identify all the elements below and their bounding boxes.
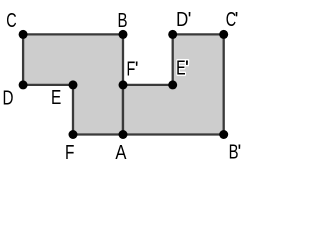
point F bbox=[69, 130, 78, 139]
polygon ABCDEF (left hexagon, gray fill) bbox=[23, 34, 123, 134]
svg-text:C: C bbox=[6, 8, 16, 31]
point E' bbox=[168, 80, 177, 89]
point E bbox=[69, 80, 78, 89]
svg-text:': ' bbox=[185, 58, 189, 80]
point A bbox=[119, 130, 128, 139]
svg-text:F: F bbox=[65, 141, 74, 163]
svg-text:': ' bbox=[235, 9, 239, 31]
svg-text:A: A bbox=[115, 140, 127, 163]
svg-text:E: E bbox=[51, 86, 61, 108]
label E' (white halo over gray fill) bbox=[176, 56, 189, 80]
svg-text:D: D bbox=[3, 86, 14, 109]
point B' bbox=[219, 130, 228, 139]
svg-text:': ' bbox=[135, 59, 139, 81]
svg-text:B: B bbox=[118, 9, 128, 32]
point D bbox=[19, 80, 28, 89]
point B bbox=[119, 30, 128, 39]
point C' bbox=[219, 30, 228, 39]
point C bbox=[19, 30, 28, 39]
svg-text:': ' bbox=[238, 142, 242, 164]
point D' bbox=[168, 30, 177, 39]
polygon A'B'C'D'E'F' (right hexagon, gray fill) bbox=[123, 34, 224, 134]
point F' bbox=[119, 80, 128, 89]
svg-text:': ' bbox=[188, 9, 192, 31]
svg-text:D: D bbox=[176, 7, 188, 30]
